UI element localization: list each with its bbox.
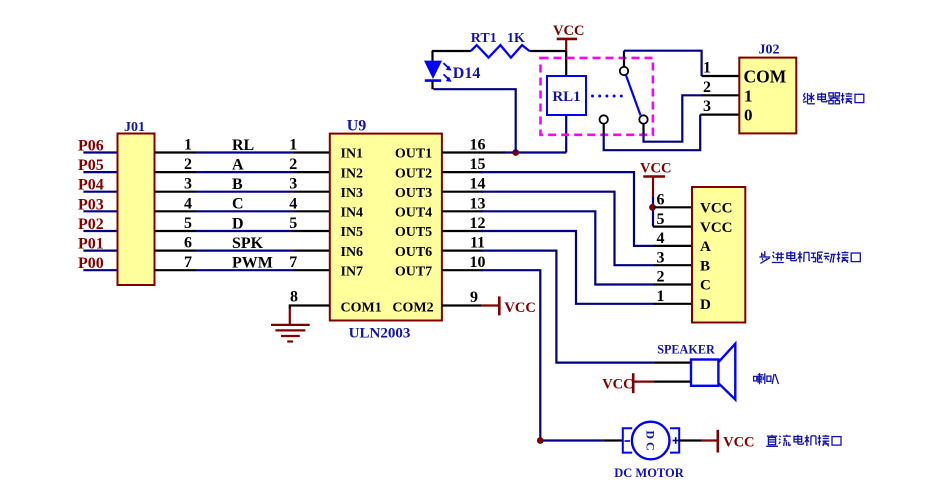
- svg-text:OUT5: OUT5: [395, 225, 432, 240]
- svg-text:5: 5: [289, 215, 297, 232]
- svg-text:1: 1: [184, 137, 192, 154]
- svg-text:1: 1: [657, 288, 665, 305]
- wire OUT4 to stepper pin 2: [442, 211, 692, 284]
- svg-text:D: D: [232, 215, 244, 232]
- svg-text:P05: P05: [78, 157, 104, 174]
- wire J01 pin 2 to U9: [155, 171, 330, 173]
- svg-text:IN4: IN4: [341, 206, 364, 221]
- svg-text:COM2: COM2: [392, 301, 433, 316]
- wire OUT2 to stepper pin 4: [442, 172, 692, 246]
- svg-text:D C: D C: [644, 430, 658, 450]
- svg-text:IN5: IN5: [341, 225, 364, 240]
- wire OUT5 to stepper pin 1: [442, 231, 692, 304]
- junction stepper VCC: [649, 204, 656, 211]
- svg-text:VCC: VCC: [700, 220, 733, 236]
- svg-text:7: 7: [184, 254, 192, 271]
- svg-text:IN6: IN6: [341, 245, 364, 260]
- wire VCC to RL1: [565, 51, 567, 76]
- svg-text:J01: J01: [124, 120, 145, 135]
- svg-text:14: 14: [470, 176, 486, 193]
- op-amp driver U9 body: [330, 134, 442, 321]
- svg-text:D14: D14: [453, 65, 481, 82]
- DC motor right bracket: [670, 428, 679, 452]
- svg-text:ULN2003: ULN2003: [349, 326, 411, 342]
- power VCC stepper bar: [643, 175, 665, 178]
- ground symbol: [271, 325, 310, 342]
- svg-text:OUT6: OUT6: [395, 245, 432, 260]
- svg-text:P00: P00: [78, 255, 104, 272]
- svg-text:OUT7: OUT7: [395, 264, 432, 279]
- wire stepper pin 6: [653, 206, 692, 208]
- connector J01 left pin stubs: [83, 153, 117, 271]
- svg-text:3: 3: [289, 176, 297, 193]
- svg-text:2: 2: [184, 156, 192, 173]
- connector J01 body: [118, 134, 155, 286]
- switch NC contact: [639, 115, 647, 123]
- svg-text:16: 16: [470, 137, 486, 154]
- power VCC top stub: [565, 39, 567, 51]
- wire speaker bottom: [633, 381, 691, 383]
- connector J02 body: [739, 58, 796, 134]
- svg-text:P01: P01: [78, 236, 104, 253]
- svg-text:RL1: RL1: [552, 89, 580, 105]
- svg-text:2: 2: [703, 79, 711, 96]
- wire switch NO to J02 pin 3: [604, 115, 740, 151]
- wire J01 pin 5 to U9: [155, 230, 330, 232]
- wire J01 pin 1 to U9: [155, 151, 330, 153]
- wire OUT6 to speaker: [442, 251, 691, 363]
- svg-text:SPK: SPK: [232, 235, 264, 252]
- connector stepper body: [692, 187, 745, 323]
- wire D14 branch: [434, 89, 516, 152]
- text DC motor interface (Chinese): [767, 435, 777, 437]
- svg-text:3: 3: [703, 98, 711, 115]
- svg-text:VCC: VCC: [602, 376, 633, 392]
- motor VCC bar: [716, 430, 719, 453]
- svg-text:3: 3: [184, 176, 192, 193]
- svg-text:RL: RL: [232, 137, 254, 154]
- svg-text:2: 2: [657, 269, 665, 286]
- svg-text:RT1: RT1: [471, 31, 497, 46]
- wire RL1 bottom: [565, 115, 567, 153]
- wire J01 pin 3 to U9: [155, 191, 330, 193]
- svg-text:VCC: VCC: [723, 434, 754, 450]
- svg-text:IN1: IN1: [341, 147, 364, 162]
- wire switch common to J02 pin 1: [624, 51, 739, 76]
- resistor RT1 right lead: [529, 50, 566, 52]
- svg-text:P03: P03: [78, 196, 104, 213]
- svg-text:U9: U9: [347, 118, 367, 135]
- switch NO contact: [600, 115, 608, 123]
- svg-text:COM1: COM1: [341, 301, 382, 316]
- svg-text:4: 4: [184, 195, 192, 212]
- svg-text:IN7: IN7: [341, 264, 364, 279]
- svg-text:1K: 1K: [507, 31, 525, 46]
- DC motor left bracket: [623, 428, 632, 452]
- svg-text:D: D: [700, 297, 711, 313]
- svg-text:0: 0: [744, 106, 753, 125]
- svg-text:10: 10: [470, 254, 486, 271]
- svg-text:6: 6: [184, 235, 192, 252]
- junction at DC motor wire: [537, 437, 544, 444]
- power VCC top bar: [557, 38, 577, 41]
- svg-text:IN2: IN2: [341, 166, 364, 181]
- svg-text:5: 5: [184, 215, 192, 232]
- wire stepper pin 5: [653, 226, 692, 228]
- svg-text:15: 15: [470, 156, 486, 173]
- svg-text:DC MOTOR: DC MOTOR: [614, 466, 685, 480]
- wire U9 pin 8: [290, 306, 330, 326]
- svg-text:B: B: [700, 258, 710, 274]
- svg-text:P06: P06: [78, 138, 104, 155]
- svg-text:VCC: VCC: [553, 23, 584, 39]
- svg-text:OUT4: OUT4: [395, 206, 432, 221]
- resistor RT1 zigzag: [471, 45, 530, 58]
- relay RL1 coil box: [547, 76, 586, 115]
- wire OUT7 to DC motor: [442, 270, 622, 440]
- switch blade: [626, 75, 641, 116]
- svg-text:1: 1: [703, 60, 711, 77]
- minus terminal: [625, 440, 631, 442]
- speaker VCC bar: [632, 373, 635, 393]
- svg-text:6: 6: [657, 192, 665, 209]
- wire J01 pin 6 to U9: [155, 250, 330, 252]
- wire J01 pin 4 to U9: [155, 210, 330, 212]
- svg-text:OUT1: OUT1: [395, 147, 432, 162]
- svg-text:C: C: [700, 278, 711, 294]
- power VCC (pin 9) bar: [498, 296, 501, 315]
- svg-text:9: 9: [470, 289, 478, 306]
- svg-text:3: 3: [657, 249, 665, 266]
- LED D14: [424, 61, 442, 90]
- svg-text:P02: P02: [78, 216, 104, 233]
- relay dashed boundary: [541, 58, 653, 135]
- svg-text:4: 4: [657, 230, 665, 247]
- svg-text:4: 4: [289, 195, 297, 212]
- wire J01 pin 7 to U9: [155, 269, 330, 271]
- junction on OUT1: [512, 149, 519, 156]
- wire U9 pin 9 to VCC: [442, 304, 499, 306]
- svg-text:8: 8: [290, 289, 298, 306]
- speaker symbol: [691, 344, 735, 400]
- text relay interface (Chinese): [803, 93, 805, 96]
- text stepper interface (Chinese): [764, 251, 766, 257]
- svg-text:5: 5: [657, 211, 665, 228]
- text horn (Chinese): [754, 376, 757, 381]
- svg-text:1: 1: [289, 137, 297, 154]
- wire OUT3 to stepper pin 3: [442, 192, 692, 266]
- svg-text:VCC: VCC: [640, 161, 671, 177]
- svg-text:7: 7: [289, 254, 297, 271]
- DC motor circle: [632, 422, 670, 460]
- svg-text:OUT3: OUT3: [395, 186, 432, 201]
- power VCC stepper stub: [652, 177, 654, 227]
- svg-text:IN3: IN3: [341, 186, 364, 201]
- svg-text:J02: J02: [759, 43, 780, 58]
- svg-text:VCC: VCC: [504, 300, 535, 316]
- svg-text:1: 1: [744, 86, 753, 105]
- plus terminal: [673, 437, 680, 444]
- wire OUT1 net: [442, 151, 566, 153]
- svg-text:SPEAKER: SPEAKER: [657, 342, 715, 356]
- wire motor to VCC: [679, 439, 718, 441]
- svg-text:13: 13: [470, 195, 486, 212]
- svg-text:2: 2: [289, 156, 297, 173]
- LED D14 arrows: [444, 63, 452, 82]
- wire resistor left lead: [432, 51, 471, 61]
- relay link dotted line: [591, 95, 594, 98]
- svg-text:VCC: VCC: [700, 201, 733, 217]
- svg-text:PWM: PWM: [232, 255, 273, 272]
- switch common contact: [620, 67, 628, 75]
- svg-text:12: 12: [470, 215, 486, 232]
- svg-text:A: A: [232, 157, 244, 174]
- svg-text:COM: COM: [744, 66, 787, 86]
- svg-text:B: B: [232, 176, 243, 193]
- svg-text:OUT2: OUT2: [395, 166, 432, 181]
- wire switch NC to J02 pin 2: [644, 95, 740, 141]
- svg-text:A: A: [700, 239, 711, 255]
- svg-text:P04: P04: [78, 177, 104, 194]
- svg-text:11: 11: [470, 235, 485, 252]
- svg-text:C: C: [232, 196, 244, 213]
